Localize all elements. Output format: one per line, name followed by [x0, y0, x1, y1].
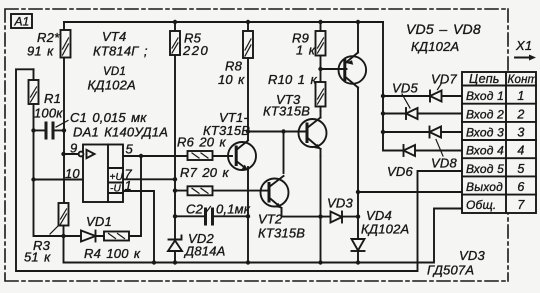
diode VD8: [430, 127, 442, 138]
diode VD6: [404, 145, 416, 156]
junction: output branch on VT4 collector line: [356, 190, 360, 194]
leader line VD8 label: [436, 140, 443, 157]
svg-text:Вход 1: Вход 1: [466, 89, 504, 103]
capacitor C1: [45, 120, 55, 141]
resistor R10: [316, 82, 326, 107]
resistor R6: [188, 151, 213, 160]
wire: R9/R10 vertical: [320, 22, 322, 111]
wire: C1 line: [34, 129, 65, 131]
svg-text:1: 1: [125, 178, 132, 193]
svg-text:КД102А: КД102А: [411, 39, 459, 54]
svg-text:R10 1 к: R10 1 к: [268, 72, 318, 87]
transistor VT1: [228, 141, 256, 171]
diode VD5: [406, 108, 418, 119]
svg-text:91 к: 91 к: [27, 44, 54, 59]
wire: VT2 collector up to VT3 base line: [283, 132, 285, 174]
svg-text:VD6: VD6: [387, 164, 413, 179]
svg-text:3: 3: [517, 126, 524, 140]
junction: VT1 emitter on common rail: [246, 260, 250, 264]
diode VD1: [81, 231, 96, 242]
wire: op-amp pin 7 supply: [123, 178, 175, 180]
svg-text:7: 7: [517, 198, 525, 212]
svg-text:5: 5: [517, 162, 524, 176]
svg-text:+U: +U: [110, 172, 124, 183]
wire: op-amp pin 1 to common rail: [123, 191, 154, 263]
transistor VT4 (PNP): [339, 51, 367, 88]
svg-text:10 к: 10 к: [218, 72, 245, 87]
svg-text:VD8: VD8: [431, 156, 457, 171]
svg-text:2: 2: [516, 107, 524, 121]
wire: left vertical R1/C1/pin10 branch down to VD1 line: [34, 69, 142, 236]
wire: VT3 emitter down to rail: [320, 156, 322, 263]
resistor R1: [29, 80, 39, 104]
junction: VD4 cathode on common rail: [356, 260, 360, 264]
junction: pin 9 node: [61, 152, 65, 156]
junction: C2 left on +U regulated line: [173, 214, 177, 218]
svg-text:A1: A1: [14, 15, 30, 29]
capacitor C2: [204, 206, 214, 227]
wire: op-amp pin 9 input: [64, 153, 79, 155]
wire: R5 / +U regulated vertical with VD2 to rail: [174, 22, 176, 263]
svg-text:R7 20 к: R7 20 к: [180, 165, 230, 180]
svg-text:Конт: Конт: [508, 74, 538, 86]
svg-text:VT2: VT2: [258, 212, 283, 227]
wire: R2 vertical from rail through C1 node down to R3: [63, 22, 65, 203]
leader line C1 label: [56, 121, 68, 128]
svg-text:Вход 2: Вход 2: [466, 107, 504, 121]
zener VD2: [168, 236, 182, 252]
svg-text:1: 1: [517, 89, 524, 103]
leader line R3 label: [50, 225, 59, 234]
svg-text:КД102А: КД102А: [88, 78, 136, 93]
resistor R4: [104, 232, 129, 241]
junction: VT1 collector node: [246, 129, 250, 133]
wire: R8 vertical, VT1 collector node: [247, 22, 249, 140]
svg-text:VD5 – VD8: VD5 – VD8: [406, 21, 481, 37]
svg-text:0,1мк: 0,1мк: [216, 202, 251, 217]
junction: C1 left / R1 line: [31, 128, 35, 132]
svg-text:VD3: VD3: [459, 248, 485, 263]
svg-text:R6 20 к: R6 20 к: [177, 135, 227, 150]
wire: VD8 row to pin 3: [383, 131, 462, 133]
junction: VD5 row on diode bus: [381, 111, 385, 115]
wire: VD3 line: [321, 216, 359, 218]
wire: output line to pin 6: [358, 191, 462, 193]
junction: VT2 collector / VT3 base line: [281, 129, 285, 133]
junction: R7 left on +U regulated line: [173, 188, 177, 192]
resistor R7: [188, 186, 213, 195]
junction: R3 bottom on VD1 line: [61, 234, 65, 238]
junction: R5 top on +U rail: [173, 20, 177, 24]
svg-text:VT4: VT4: [102, 29, 126, 44]
wire: VD7 row to pin 1: [383, 95, 462, 97]
resistor R5: [170, 31, 180, 55]
svg-text:R4 100 к: R4 100 к: [84, 246, 141, 261]
svg-text:4: 4: [517, 144, 524, 158]
svg-text:Выход: Выход: [466, 180, 503, 194]
svg-text:Вход 5: Вход 5: [466, 162, 504, 176]
svg-text:Вход 3: Вход 3: [466, 126, 504, 140]
resistor R2: [61, 30, 71, 58]
diode VD4: [352, 239, 365, 251]
leader line VD7 label: [438, 84, 442, 90]
svg-text:R1: R1: [44, 91, 61, 106]
junction: VT2-VT3 emitters / VD3 anode: [318, 214, 322, 218]
svg-text:-U: -U: [110, 184, 122, 195]
svg-text:Цепь: Цепь: [469, 72, 500, 86]
leader line C2 label: [206, 207, 211, 213]
wire: VT4 collector down through VD4 to rail: [357, 88, 359, 263]
wire: VT4 emitter to rail: [357, 22, 359, 51]
junction: VT3 emitter line on common rail: [318, 260, 322, 264]
leader line VD5 label: [402, 94, 410, 108]
svg-text:VD3: VD3: [327, 196, 353, 211]
wire: VT1 collector node to VT3 base: [248, 131, 305, 133]
wire: diode bus vertical and VD6 row to pin 4: [383, 22, 462, 151]
junction: pin 1 line on common rail: [152, 260, 156, 264]
junction: C2 right / VT1 emitter line: [246, 214, 250, 218]
op-amp DA1: [79, 145, 123, 203]
wire: VT4 base: [321, 68, 347, 70]
svg-text:Вход 4: Вход 4: [466, 144, 504, 158]
wire: C2 line: [175, 215, 248, 217]
svg-text:9: 9: [70, 141, 77, 156]
junction: VT4 emitter on +U rail: [356, 20, 360, 24]
resistor R3: [59, 203, 69, 226]
junction: VD8 row on diode bus: [381, 130, 385, 134]
svg-text:X1: X1: [515, 38, 532, 53]
svg-text:VD1: VD1: [86, 214, 112, 229]
resistor R8: [243, 31, 253, 58]
svg-text:10: 10: [65, 166, 80, 181]
junction: pin 5 output / feedback: [139, 154, 143, 158]
wire: R3 bottom / common rail / to Общ pin 7: [64, 209, 463, 263]
transistor VT3: [299, 111, 327, 156]
wire: op-amp pin 5 output to R6 and VT1 base: [123, 155, 232, 157]
connector X1 table: [462, 72, 536, 213]
wire: VT1 emitter down to rail: [247, 167, 249, 263]
junction: VD2 anode on common rail: [173, 260, 177, 264]
svg-text:6: 6: [517, 180, 524, 194]
resistor R9: [316, 31, 326, 56]
wire: R7 line to VT2 base: [175, 190, 269, 192]
svg-text:1 к: 1 к: [296, 43, 316, 58]
junction: VD3 cathode / VD4 anode: [356, 214, 360, 218]
svg-text:КД102А: КД102А: [361, 222, 409, 237]
svg-text:КТ814Г ;: КТ814Г ;: [93, 44, 148, 59]
junction: R9 top on +U rail: [318, 20, 322, 24]
svg-text:220: 220: [182, 43, 209, 58]
svg-text:VD5: VD5: [392, 81, 418, 96]
wire: op-amp pin 10 input: [34, 179, 84, 181]
svg-text:VD1: VD1: [103, 66, 126, 78]
junction: pin 10 node: [31, 177, 35, 181]
svg-text:VD7: VD7: [431, 72, 457, 87]
diode VD3: [331, 212, 343, 223]
svg-text:КТ315В: КТ315В: [263, 104, 310, 119]
svg-text:Д814А: Д814А: [183, 244, 226, 259]
svg-text:Общ.: Общ.: [466, 198, 496, 212]
junction: R8 top on +U rail: [246, 20, 250, 24]
svg-text:5: 5: [126, 142, 134, 157]
junction: VD7 row on diode bus: [381, 94, 385, 98]
module designator A1 box: [11, 14, 32, 28]
junction: pin 7 on +U regulated line: [173, 177, 177, 181]
junction: R9-R10 node / VT4 base: [318, 67, 322, 71]
wire: +U top rail: [64, 21, 383, 23]
transistor VT2: [261, 176, 289, 211]
svg-text:C2: C2: [186, 202, 204, 217]
svg-text:DA1 К140УД1А: DA1 К140УД1А: [73, 125, 168, 140]
junction: C1 right / R2 line: [62, 128, 66, 132]
svg-text:КТ315В: КТ315В: [258, 226, 305, 241]
svg-text:100к: 100к: [34, 106, 63, 121]
wire: input line from pin 5 of X1 down left side to R1 top: [16, 69, 462, 271]
svg-text:51 к: 51 к: [24, 250, 51, 265]
connector X1 arrow: [515, 55, 536, 61]
wire: VT2 emitter to VT3 emitter line: [282, 211, 321, 217]
svg-text:ГД507А: ГД507А: [427, 263, 474, 278]
diode VD7: [430, 91, 442, 102]
svg-text:C1 0,015 мк: C1 0,015 мк: [70, 110, 147, 125]
wire: VD5 row to pin 2: [383, 113, 462, 115]
